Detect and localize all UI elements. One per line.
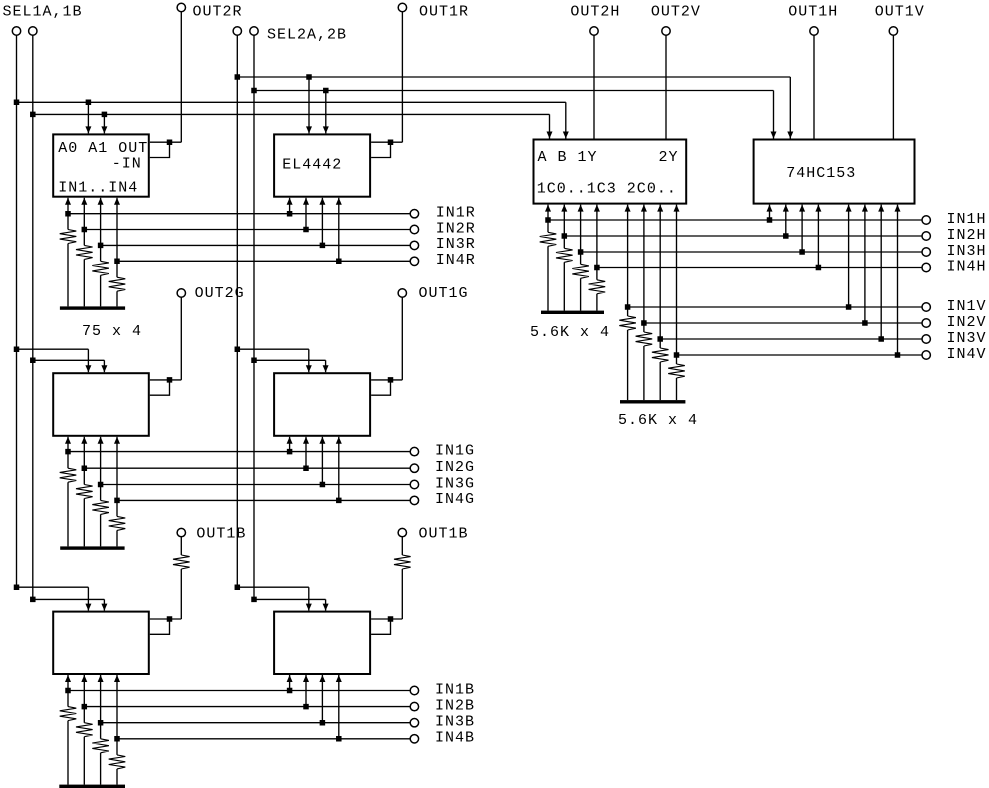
svg-text:IN3V: IN3V	[947, 330, 987, 347]
svg-text:IN3B: IN3B	[435, 714, 475, 731]
svg-text:OUT1R: OUT1R	[419, 3, 469, 20]
svg-text:-IN: -IN	[112, 155, 142, 172]
svg-text:OUT1V: OUT1V	[875, 3, 925, 20]
svg-text:SEL2A,2B: SEL2A,2B	[267, 27, 347, 44]
svg-text:IN1..IN4: IN1..IN4	[58, 179, 138, 196]
svg-text:IN2B: IN2B	[435, 697, 475, 714]
svg-text:OUT1H: OUT1H	[788, 3, 838, 20]
svg-text:OUT1B: OUT1B	[196, 526, 246, 543]
svg-text:OUT2G: OUT2G	[195, 285, 245, 302]
svg-text:1C0..1C3 2C0..: 1C0..1C3 2C0..	[537, 181, 677, 198]
svg-text:75 x 4: 75 x 4	[82, 323, 142, 340]
svg-text:A B 1Y: A B 1Y	[538, 149, 598, 166]
svg-text:IN2R: IN2R	[436, 220, 476, 237]
svg-text:IN1R: IN1R	[436, 205, 476, 222]
svg-text:IN4G: IN4G	[435, 491, 475, 508]
svg-text:OUT2V: OUT2V	[651, 3, 701, 20]
svg-text:IN1H: IN1H	[947, 211, 987, 228]
svg-text:IN2V: IN2V	[947, 314, 987, 331]
svg-text:IN3G: IN3G	[435, 475, 475, 492]
svg-text:2Y: 2Y	[659, 149, 679, 166]
svg-text:IN1V: IN1V	[947, 298, 987, 315]
svg-text:IN3H: IN3H	[947, 243, 987, 260]
svg-text:IN4R: IN4R	[436, 252, 476, 269]
svg-text:OUT1G: OUT1G	[419, 285, 469, 302]
svg-text:EL4442: EL4442	[282, 156, 342, 173]
svg-text:IN4V: IN4V	[947, 346, 987, 363]
svg-text:5.6K x 4: 5.6K x 4	[618, 412, 698, 429]
svg-text:5.6K x 4: 5.6K x 4	[530, 324, 610, 341]
svg-text:IN4B: IN4B	[435, 730, 475, 747]
svg-text:74HC153: 74HC153	[786, 165, 856, 182]
svg-text:SEL1A,1B: SEL1A,1B	[3, 3, 83, 20]
svg-text:IN4H: IN4H	[947, 258, 987, 275]
svg-text:OUT2H: OUT2H	[570, 3, 620, 20]
svg-text:IN1G: IN1G	[435, 442, 475, 459]
svg-text:IN1B: IN1B	[435, 681, 475, 698]
svg-text:IN3R: IN3R	[436, 236, 476, 253]
svg-text:IN2G: IN2G	[435, 459, 475, 476]
svg-text:OUT1B: OUT1B	[419, 526, 469, 543]
svg-text:IN2H: IN2H	[947, 227, 987, 244]
svg-text:OUT2R: OUT2R	[193, 3, 243, 20]
